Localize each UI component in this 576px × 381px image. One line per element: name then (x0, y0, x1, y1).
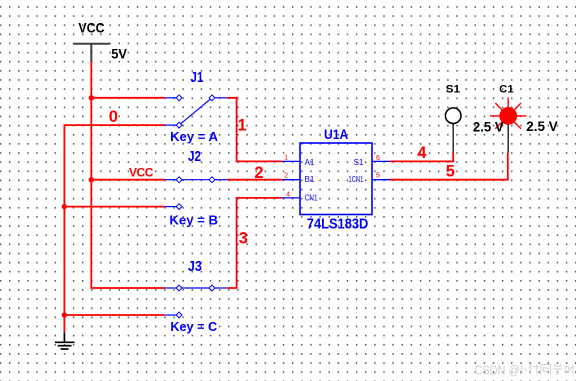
svg-text:J3: J3 (188, 258, 202, 275)
svg-text:2.5 V: 2.5 V (473, 118, 504, 134)
svg-text:1CN1: 1CN1 (348, 175, 363, 184)
svg-text:4: 4 (417, 144, 427, 162)
svg-text:6: 6 (376, 155, 380, 162)
svg-text:VCC: VCC (78, 19, 104, 35)
svg-text:2.5 V: 2.5 V (526, 118, 558, 134)
svg-text:4: 4 (286, 192, 290, 199)
svg-text:1: 1 (284, 155, 288, 162)
svg-text:J2: J2 (188, 148, 201, 165)
svg-text:5V: 5V (111, 46, 127, 62)
svg-text:CN1: CN1 (305, 193, 318, 202)
svg-text:5: 5 (376, 173, 380, 180)
svg-text:Key = A: Key = A (170, 129, 219, 144)
svg-text:U1A: U1A (324, 126, 348, 142)
svg-text:0: 0 (109, 108, 118, 126)
svg-text:S1: S1 (354, 158, 364, 167)
svg-text:B1: B1 (305, 175, 315, 184)
svg-text:2: 2 (284, 173, 288, 180)
svg-text:74LS183D: 74LS183D (307, 217, 369, 233)
svg-text:5: 5 (446, 163, 455, 181)
svg-text:C1: C1 (499, 83, 514, 95)
svg-text:S1: S1 (446, 83, 461, 95)
svg-text:VCC: VCC (129, 166, 154, 180)
svg-text:CSDN @: CSDN @ (475, 363, 520, 378)
svg-text:Key = C: Key = C (170, 319, 217, 334)
svg-text:Key = B: Key = B (169, 212, 218, 227)
svg-text:A1: A1 (305, 158, 315, 167)
svg-text:2: 2 (254, 164, 263, 182)
svg-text:J1: J1 (190, 69, 203, 86)
svg-text:1: 1 (238, 116, 247, 134)
svg-text:3: 3 (239, 230, 248, 248)
